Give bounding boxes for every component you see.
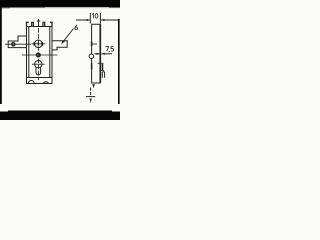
- upper hole crosshair: [32, 43, 46, 45]
- plate inner wall right: [49, 27, 51, 78]
- dim10 text glyphs: [92, 14, 98, 19]
- dim75 arrowhead right-pointing: [97, 53, 100, 55]
- left arm centerline: [5, 43, 31, 45]
- keyhole crosshair: [32, 63, 45, 65]
- keyhole slot: [36, 67, 41, 75]
- side view tick y70: [100, 69, 104, 71]
- scan border top band: [0, 0, 120, 8]
- keyhole circle: [35, 60, 42, 67]
- small horizontal line: [86, 96, 95, 98]
- plate inner wall left: [28, 27, 30, 78]
- side view right wall bold: [99, 24, 101, 83]
- dim10 right arrow line: [101, 19, 118, 21]
- side view tick y63: [98, 62, 104, 64]
- label 6 glyph: [75, 25, 78, 30]
- dim10 right extension line: [99, 13, 101, 24]
- small down arrowhead: [90, 99, 92, 104]
- left arm hole dot: [12, 43, 15, 46]
- leader line to right arm: [63, 29, 74, 43]
- side view tick y44: [92, 43, 97, 45]
- leader arrowhead: [61, 40, 64, 44]
- dim75 arrowhead left-pointing: [101, 53, 104, 55]
- scan border bottom band: [0, 111, 120, 121]
- side view right tab: [102, 72, 104, 78]
- dim75 text glyphs: [106, 47, 114, 53]
- dim10 left arrowhead: [87, 19, 91, 21]
- upper hole circle: [35, 40, 43, 48]
- plate outer rectangle (front view): [27, 27, 53, 84]
- dimension 10: [76, 13, 119, 24]
- dim10 right arrowhead: [101, 19, 105, 21]
- right arm outline: [52, 41, 67, 50]
- left arm outline: [8, 36, 26, 48]
- upper hole bold side arcs: [34, 42, 42, 45]
- dim10 left extension line: [89, 13, 91, 24]
- pivot small circle: [37, 53, 41, 57]
- dashed stub below side view: [90, 88, 92, 97]
- top band soft edge: [0, 7, 120, 8]
- plate bottom band line: [27, 77, 53, 79]
- centerline tick above top: [37, 19, 40, 27]
- side view left wall lower blob: [91, 63, 93, 70]
- dim75 left segment: [95, 53, 100, 55]
- dim10 left arrow line: [76, 19, 90, 21]
- side view: [89, 24, 104, 83]
- vertical dashed centerline of plate: [38, 28, 40, 80]
- scan border right edge line: [118, 19, 120, 104]
- scan border left edge line: [0, 7, 2, 104]
- upper hole center dash: [38, 42, 39, 45]
- dimension 7,5: [95, 53, 113, 55]
- side view left wall blob: [91, 42, 93, 47]
- side view double line: [102, 64, 104, 70]
- side view wire loop: [89, 54, 93, 58]
- bottom notch arc right: [43, 82, 48, 84]
- top castellation teeth: [27, 22, 29, 26]
- dim75 right segment: [102, 53, 112, 55]
- bottom notch arc left: [28, 81, 34, 84]
- side view outline rectangle: [92, 24, 101, 83]
- bottom arrow below side view: [92, 84, 95, 88]
- pivot axis long line: [22, 54, 58, 56]
